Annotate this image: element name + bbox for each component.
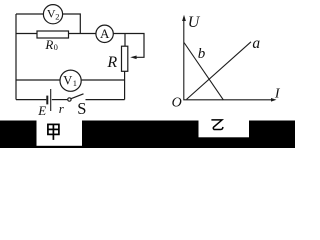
svg-text:O: O (172, 96, 182, 111)
svg-text:U: U (188, 14, 201, 31)
svg-text:E: E (37, 103, 46, 118)
svg-text:A: A (100, 26, 110, 41)
svg-text:R: R (106, 54, 117, 71)
svg-text:S: S (77, 99, 86, 118)
svg-text:b: b (198, 46, 206, 62)
svg-text:R: R (44, 37, 53, 52)
svg-text:0: 0 (54, 42, 58, 52)
svg-text:a: a (252, 35, 260, 52)
svg-text:V: V (63, 74, 72, 88)
svg-text:1: 1 (73, 78, 77, 88)
svg-text:2: 2 (55, 12, 59, 22)
